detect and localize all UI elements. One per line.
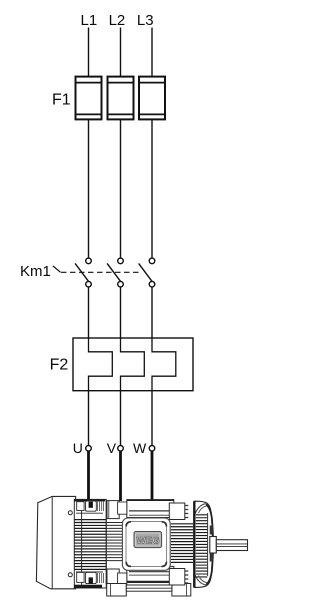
- fuse F1c: [139, 77, 165, 120]
- terminal U: [86, 446, 92, 452]
- contact Km1b: [107, 258, 123, 287]
- svg-text:L1: L1: [81, 12, 98, 29]
- label Km1: [20, 263, 51, 280]
- wire contact Km1b to overload F2: [120, 287, 122, 338]
- Km1 actuator tick: [53, 266, 61, 272]
- svg-text:V: V: [107, 440, 117, 456]
- svg-text:Km1: Km1: [20, 263, 51, 280]
- motor end bell joint: [193, 501, 195, 587]
- motor top canopy band: [127, 500, 174, 518]
- motor bracket bottom-right: [169, 569, 188, 586]
- overload relay F2 heater element phase 2: [121, 338, 145, 391]
- overload relay F2 heater element phase 1: [89, 338, 113, 391]
- label U: [73, 440, 83, 456]
- svg-text:WEG: WEG: [137, 536, 160, 547]
- wire fuse F1b to contact Km1b: [120, 120, 122, 259]
- wire contact Km1a to overload F2: [88, 287, 90, 338]
- motor frame fins right of plate: [171, 524, 193, 563]
- motor bracket bottom-left: [76, 572, 103, 584]
- motor shaft shoulder: [210, 537, 217, 554]
- fuse F1b: [108, 77, 134, 120]
- svg-text:F1: F1: [52, 92, 71, 109]
- motor cable V: [119, 451, 122, 501]
- motor center plate: [122, 518, 170, 570]
- label F2: [50, 357, 69, 374]
- wire contact Km1c to overload F2: [151, 287, 153, 338]
- wire F2 to terminal W: [151, 391, 153, 446]
- overload relay F2 box: [73, 338, 193, 391]
- motor cable W: [151, 451, 154, 500]
- wire F2 to terminal V: [120, 391, 122, 446]
- wire fuse F1a to contact Km1a: [88, 120, 90, 259]
- label F1: [52, 92, 71, 109]
- label V: [107, 440, 117, 456]
- terminal W: [149, 446, 155, 452]
- wire L2 to fuse F1b: [120, 28, 122, 77]
- contact Km1c: [139, 258, 155, 287]
- motor fan cover bolt top: [68, 511, 72, 515]
- motor cable U: [87, 451, 90, 505]
- motor fan cover: [36, 496, 75, 588]
- fuse F1a: [76, 77, 102, 120]
- overload relay F2 heater element phase 3: [152, 338, 176, 391]
- motor terminal bracket top-left: [76, 501, 103, 513]
- motor fan cover bolt bottom: [68, 573, 72, 577]
- motor end bell rim: [206, 504, 213, 585]
- wire L3 to fuse F1c: [151, 28, 153, 77]
- motor end bell: [194, 501, 212, 587]
- motor M body group: [36, 496, 247, 596]
- terminal V: [118, 446, 124, 452]
- motor base feet: [107, 584, 191, 597]
- motor bottom canopy band: [127, 566, 174, 582]
- motor bracket top-right: [169, 503, 188, 520]
- motor shaft: [216, 540, 247, 551]
- svg-text:U: U: [73, 440, 83, 456]
- node L1: [81, 12, 98, 29]
- label W: [133, 440, 147, 456]
- motor frame fin section: [74, 499, 122, 588]
- svg-text:F2: F2: [50, 357, 69, 374]
- node L3: [137, 12, 154, 29]
- wire F2 to terminal U: [88, 391, 90, 446]
- motor terminal bracket top-center: [107, 501, 127, 519]
- Km1 mechanical linkage dashed line: [61, 271, 139, 273]
- motor bracket bottom-center: [107, 569, 127, 587]
- node L2: [109, 12, 126, 29]
- contact Km1a: [75, 258, 91, 287]
- svg-text:W: W: [133, 440, 147, 456]
- wire fuse F1c to contact Km1c: [151, 120, 153, 259]
- wire L1 to fuse F1a: [88, 28, 90, 77]
- svg-text:L3: L3: [137, 12, 154, 29]
- motor WEG logo: [134, 532, 162, 548]
- svg-text:L2: L2: [109, 12, 126, 29]
